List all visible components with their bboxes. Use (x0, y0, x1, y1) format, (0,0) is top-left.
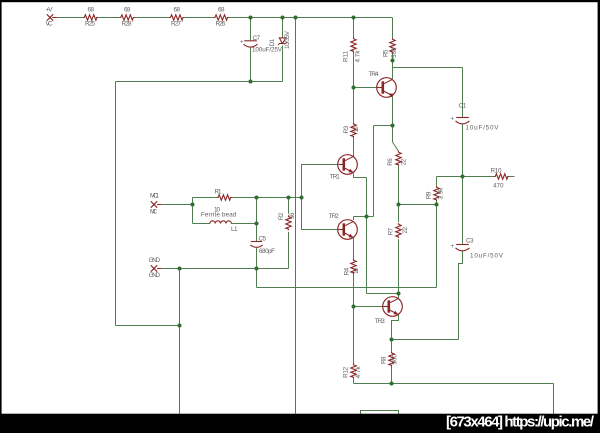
svg-text:680pF: 680pF (259, 248, 275, 255)
svg-text:R25: R25 (85, 21, 95, 28)
svg-text:+: + (451, 243, 455, 250)
svg-text:C7: C7 (253, 35, 261, 42)
svg-text:68: 68 (218, 7, 225, 14)
svg-text:10uF/50V: 10uF/50V (470, 252, 504, 259)
svg-text:10: 10 (353, 268, 360, 274)
svg-text:10/35V: 10/35V (284, 30, 291, 49)
svg-text:D1: D1 (269, 38, 276, 46)
svg-text:10uF/50V: 10uF/50V (466, 124, 500, 131)
svg-text:R27: R27 (171, 21, 181, 28)
svg-text:TR4: TR4 (369, 71, 379, 78)
svg-text:C1: C1 (459, 102, 467, 109)
svg-text:3.9k: 3.9k (437, 187, 444, 200)
svg-text:100uF/25V: 100uF/25V (252, 46, 283, 53)
svg-text:C5: C5 (259, 236, 267, 243)
svg-text:C3: C3 (466, 238, 474, 245)
svg-text:68: 68 (88, 7, 95, 14)
svg-text:R3: R3 (343, 125, 350, 133)
svg-text:R28: R28 (122, 21, 132, 28)
svg-text:R6: R6 (387, 158, 394, 166)
svg-text:GND: GND (149, 257, 161, 264)
svg-text:10: 10 (353, 126, 360, 132)
svg-text:68: 68 (124, 7, 131, 14)
svg-text:+V: +V (46, 7, 54, 14)
svg-text:TR1: TR1 (330, 173, 340, 180)
svg-text:Ferrite bead: Ferrite bead (201, 212, 237, 219)
svg-text:4.7k: 4.7k (354, 50, 361, 63)
svg-text:R8: R8 (381, 356, 388, 364)
svg-text:+: + (451, 115, 455, 122)
svg-text:R11: R11 (342, 51, 349, 62)
svg-text:MC1: MC1 (150, 192, 159, 199)
svg-text:MC: MC (150, 208, 157, 215)
svg-text:R1: R1 (215, 189, 222, 196)
svg-text:56: 56 (289, 212, 296, 219)
svg-text:[673x464] https://upic.me/: [673x464] https://upic.me/ (446, 414, 595, 431)
svg-text:R26: R26 (216, 21, 226, 28)
svg-text:470: 470 (493, 182, 504, 189)
svg-text:560: 560 (391, 354, 398, 365)
svg-text:R4: R4 (344, 267, 351, 275)
svg-text:+: + (240, 38, 244, 45)
svg-text:68: 68 (174, 7, 181, 14)
svg-text:TR2: TR2 (329, 213, 339, 220)
svg-text:R9: R9 (426, 191, 433, 199)
svg-text:VC: VC (46, 21, 53, 28)
svg-text:TR3: TR3 (375, 318, 385, 325)
svg-text:22: 22 (400, 158, 407, 165)
svg-text:R12: R12 (342, 366, 349, 377)
svg-text:R5: R5 (382, 49, 389, 57)
svg-text:R10: R10 (491, 167, 502, 174)
svg-text:R2: R2 (278, 212, 285, 220)
svg-text:GND: GND (149, 272, 161, 279)
svg-text:22: 22 (402, 226, 409, 233)
svg-text:R7: R7 (388, 227, 395, 235)
svg-text:4.7k: 4.7k (355, 366, 362, 379)
svg-text:560: 560 (391, 47, 398, 58)
svg-text:L1: L1 (231, 226, 238, 233)
